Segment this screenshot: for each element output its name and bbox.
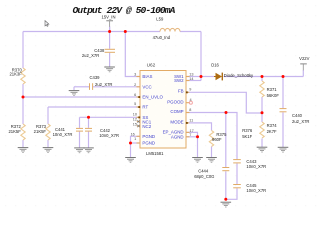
svg-text:R376: R376 <box>242 128 253 133</box>
svg-text:47u0_Ind: 47u0_Ind <box>153 35 171 40</box>
svg-text:21K5F: 21K5F <box>34 129 47 134</box>
svg-text:PGND: PGND <box>142 141 155 146</box>
svg-text:L59: L59 <box>156 17 164 22</box>
svg-text:3: 3 <box>134 73 136 77</box>
svg-text:10n0_X7R: 10n0_X7R <box>246 164 266 169</box>
svg-text:2u2_X7R: 2u2_X7R <box>82 53 99 58</box>
svg-text:12: 12 <box>133 117 137 121</box>
svg-text:PGOOD: PGOOD <box>167 100 183 105</box>
svg-text:14: 14 <box>189 77 193 81</box>
svg-text:SW2: SW2 <box>174 78 184 83</box>
svg-text:2u2_X7R: 2u2_X7R <box>95 82 112 87</box>
svg-text:C440: C440 <box>292 113 303 118</box>
svg-text:4: 4 <box>190 98 192 102</box>
svg-text:U62: U62 <box>147 63 156 68</box>
svg-text:15V_IN: 15V_IN <box>102 15 116 20</box>
svg-text:2K7F: 2K7F <box>267 129 277 134</box>
svg-text:Output 22V @ 50-100mA: Output 22V @ 50-100mA <box>73 5 176 16</box>
svg-text:21K3F: 21K3F <box>9 72 22 77</box>
svg-text:21K5F: 21K5F <box>8 129 21 134</box>
svg-text:10n0_X7R: 10n0_X7R <box>246 188 266 193</box>
svg-text:8: 8 <box>189 108 191 112</box>
svg-text:2u2_X7R: 2u2_X7R <box>292 119 309 124</box>
svg-text:10: 10 <box>133 113 137 117</box>
svg-text:BIAS: BIAS <box>142 74 152 79</box>
svg-text:2: 2 <box>134 83 136 87</box>
svg-text:COMP: COMP <box>170 109 183 114</box>
svg-text:10n0_X7R: 10n0_X7R <box>99 133 119 138</box>
svg-text:R371: R371 <box>267 87 278 92</box>
svg-text:11: 11 <box>189 119 193 123</box>
svg-text:AGND: AGND <box>171 134 184 139</box>
svg-text:V22V: V22V <box>299 56 309 61</box>
svg-text:Diode_Schottky: Diode_Schottky <box>224 73 254 78</box>
svg-text:6: 6 <box>134 93 136 97</box>
svg-text:13: 13 <box>189 72 193 76</box>
svg-text:NC2: NC2 <box>142 124 151 129</box>
svg-text:5: 5 <box>134 102 136 106</box>
svg-text:D16: D16 <box>211 62 219 67</box>
svg-text:1: 1 <box>134 137 136 141</box>
svg-text:MODE: MODE <box>170 119 183 124</box>
svg-text:15: 15 <box>133 123 137 127</box>
svg-text:EN_UVLO: EN_UVLO <box>142 95 163 100</box>
svg-text:R374: R374 <box>267 123 278 128</box>
svg-text:16: 16 <box>131 132 135 136</box>
svg-text:10n0_X7R: 10n0_X7R <box>53 132 73 137</box>
svg-text:RT: RT <box>142 105 148 110</box>
svg-text:9: 9 <box>189 87 191 91</box>
svg-text:LM51581: LM51581 <box>146 151 164 156</box>
svg-text:68p0_C0G: 68p0_C0G <box>194 174 214 179</box>
svg-text:PGND: PGND <box>142 134 155 139</box>
svg-text:960F: 960F <box>212 137 222 142</box>
svg-text:C439: C439 <box>90 75 101 80</box>
svg-text:56K0F: 56K0F <box>267 93 280 98</box>
svg-text:VCC: VCC <box>142 85 151 90</box>
svg-text:FB: FB <box>178 88 184 93</box>
svg-text:C444: C444 <box>198 168 209 173</box>
svg-text:R375: R375 <box>216 132 227 137</box>
svg-text:5K1F: 5K1F <box>242 134 252 139</box>
svg-text:7: 7 <box>189 133 191 137</box>
